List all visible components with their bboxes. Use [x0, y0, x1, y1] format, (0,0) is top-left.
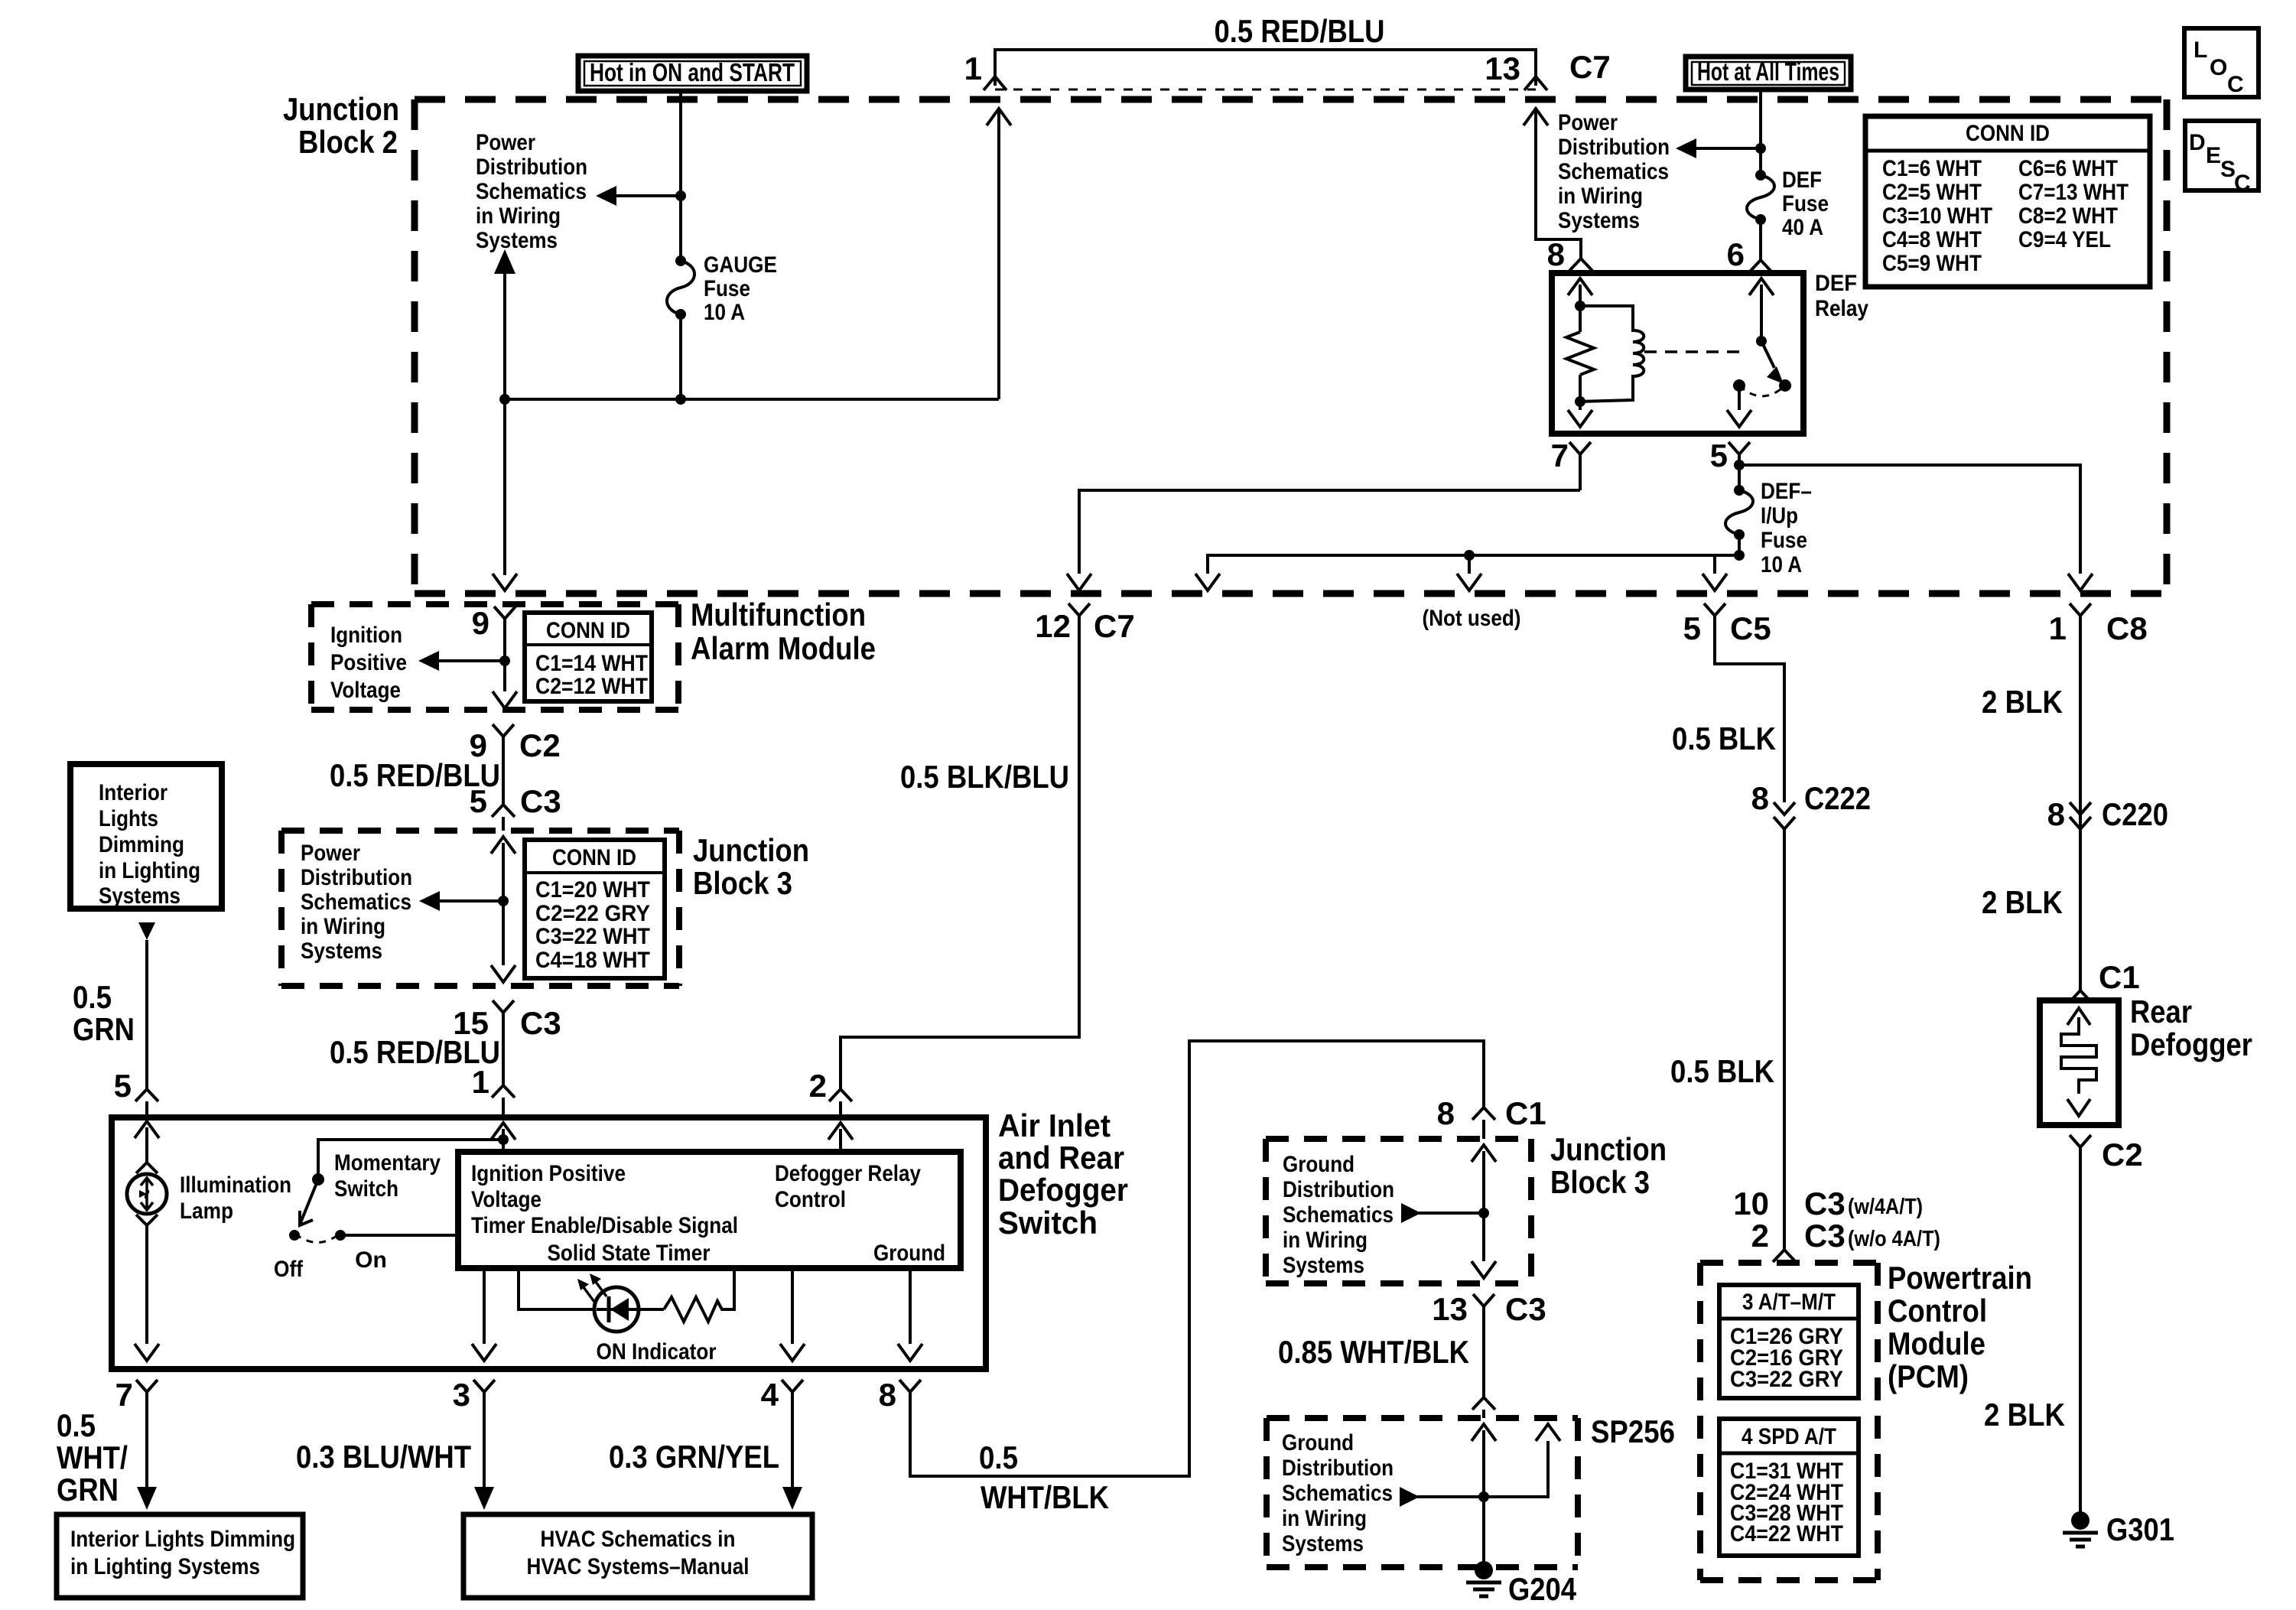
- svg-text:Ground: Ground: [1282, 1430, 1354, 1456]
- svg-text:Switch: Switch: [998, 1205, 1098, 1241]
- svg-text:G204: G204: [1508, 1571, 1577, 1607]
- Hot at All Times box: [1686, 57, 1851, 89]
- MAM ignition positive voltage arrow: [330, 623, 510, 703]
- svg-text:in Wiring: in Wiring: [1558, 184, 1643, 209]
- svg-text:Fuse: Fuse: [1782, 191, 1829, 216]
- svg-text:C1=14 WHT: C1=14 WHT: [535, 651, 648, 676]
- ground G204: [1466, 1516, 1577, 1607]
- wire 1 C8 down right column: [2079, 616, 2082, 990]
- svg-text:CONN ID: CONN ID: [552, 845, 636, 870]
- connector pin 1 C7: [964, 50, 1007, 90]
- timer output pin3 wire: [472, 1268, 496, 1361]
- junction block 2 dashed border: [415, 99, 2167, 594]
- svg-text:12: 12: [1035, 608, 1071, 644]
- svg-text:Systems: Systems: [301, 938, 382, 964]
- ground G301: [2063, 1511, 2174, 1547]
- svg-text:GRN: GRN: [57, 1472, 119, 1508]
- connector C2 rear defogger: [2070, 1135, 2143, 1173]
- connector C1 rear defogger: [2069, 959, 2140, 1003]
- connector 2 switch: [809, 1068, 852, 1117]
- momentary switch: [274, 1150, 441, 1282]
- svg-text:Junction: Junction: [693, 832, 809, 868]
- svg-text:Control: Control: [775, 1187, 846, 1212]
- svg-text:(Not used): (Not used): [1423, 606, 1521, 631]
- net 0.5 BLK label lower: [1670, 1053, 1774, 1089]
- relay resistor: [1566, 332, 1594, 375]
- svg-text:Voltage: Voltage: [471, 1187, 541, 1212]
- pin1 junction dot: [498, 1134, 509, 1145]
- Rear Defogger box: [2040, 994, 2252, 1125]
- svg-text:Schematics: Schematics: [1283, 1202, 1394, 1228]
- svg-text:Systems: Systems: [476, 228, 558, 253]
- svg-text:in Lighting Systems: in Lighting Systems: [70, 1554, 260, 1579]
- timer ground pin8 wire: [898, 1268, 922, 1361]
- relay switch contacts: [1733, 379, 1791, 396]
- svg-text:DEF: DEF: [1815, 271, 1857, 296]
- svg-text:in Wiring: in Wiring: [301, 914, 385, 939]
- connector relay pin 7: [1551, 437, 1591, 490]
- svg-text:C8: C8: [2106, 610, 2148, 646]
- wire from Hot in ON box down: [679, 91, 682, 261]
- svg-text:5: 5: [1683, 610, 1701, 646]
- svg-text:Rear: Rear: [2130, 994, 2192, 1029]
- svg-text:Ground: Ground: [873, 1241, 945, 1266]
- (Not used) branch: [1423, 550, 1521, 631]
- svg-text:8: 8: [1437, 1095, 1455, 1131]
- svg-text:C7=13 WHT: C7=13 WHT: [2018, 180, 2129, 205]
- bus wire inside JB2: [499, 394, 999, 405]
- svg-text:0.5: 0.5: [979, 1439, 1018, 1475]
- junction dot pin5 branch: [1734, 460, 1745, 470]
- connector 4 switch: [761, 1377, 803, 1510]
- svg-text:D: D: [2189, 130, 2206, 155]
- junction dot: [1755, 143, 1766, 154]
- svg-text:8: 8: [1751, 780, 1769, 816]
- connector 1 switch: [472, 1064, 515, 1117]
- MAM CONN ID table: [525, 613, 652, 701]
- svg-text:C3=10 WHT: C3=10 WHT: [1882, 203, 1992, 229]
- Junction Block 3 dashed box (upper): [281, 831, 809, 986]
- svg-text:40 A: 40 A: [1782, 215, 1823, 240]
- relay coil: [1580, 306, 1644, 402]
- svg-text:5: 5: [470, 783, 487, 819]
- distribution wire below fuse: [1195, 550, 1745, 590]
- svg-text:10: 10: [1733, 1186, 1769, 1221]
- svg-text:C7: C7: [1569, 49, 1611, 85]
- relay coil bottom junction: [1575, 396, 1585, 407]
- Hot in ON and START box: [578, 56, 807, 91]
- svg-text:Distribution: Distribution: [1282, 1456, 1394, 1481]
- svg-text:C4=22 WHT: C4=22 WHT: [1730, 1521, 1843, 1547]
- wire On contact to timer: [340, 1234, 458, 1237]
- arrow to Power Distribution Schematics (right): [1676, 138, 1761, 158]
- SP256 branch up arrow: [1484, 1424, 1560, 1497]
- svg-text:Ground: Ground: [1283, 1152, 1355, 1177]
- svg-text:Alarm Module: Alarm Module: [691, 630, 876, 666]
- connector relay pin 5: [1710, 437, 1750, 490]
- Interior Lights Dimming in Lighting Systems box (bottom): [57, 1514, 303, 1598]
- svg-text:5: 5: [1710, 437, 1728, 473]
- svg-text:C4=18 WHT: C4=18 WHT: [535, 948, 650, 973]
- svg-text:Schematics: Schematics: [1282, 1481, 1393, 1506]
- MAM output arrow down: [493, 691, 517, 708]
- wire C2 to ground: [2079, 1147, 2082, 1512]
- svg-text:DEF: DEF: [1782, 168, 1822, 193]
- svg-text:Schematics: Schematics: [301, 890, 411, 915]
- net 0.5 RED/BLU label lower: [330, 1034, 500, 1070]
- SP256 entry arrow: [1472, 1424, 1496, 1516]
- svg-text:WHT/: WHT/: [57, 1439, 128, 1475]
- svg-text:0.5 RED/BLU: 0.5 RED/BLU: [1215, 13, 1385, 49]
- svg-text:C3: C3: [1804, 1218, 1846, 1254]
- relay coil input arrow pin 8: [1568, 278, 1592, 332]
- connector 12 C7: [1035, 603, 1134, 644]
- svg-text:Distribution: Distribution: [1558, 135, 1670, 160]
- svg-text:Off: Off: [274, 1257, 304, 1282]
- svg-text:and Rear: and Rear: [998, 1140, 1124, 1176]
- svg-text:10 A: 10 A: [1761, 552, 1802, 577]
- switch pin5 entry arrow: [135, 1121, 159, 1163]
- wire pin1 to momentary switch: [318, 1140, 503, 1179]
- svg-text:C5=9 WHT: C5=9 WHT: [1882, 251, 1982, 276]
- svg-text:Interior: Interior: [99, 780, 167, 805]
- svg-text:C2=12 WHT: C2=12 WHT: [535, 674, 648, 699]
- svg-text:C3: C3: [1804, 1186, 1846, 1221]
- svg-text:8: 8: [1547, 236, 1565, 272]
- wire fuse to relay pin 6: [1727, 220, 1772, 272]
- svg-text:4 SPD A/T: 4 SPD A/T: [1742, 1424, 1836, 1449]
- svg-text:Systems: Systems: [99, 883, 180, 909]
- relay coil/resistor top junction: [1575, 301, 1585, 311]
- svg-text:0.5: 0.5: [73, 979, 112, 1015]
- svg-text:7: 7: [115, 1377, 133, 1413]
- PCM 3 A/T-M/T table: [1719, 1285, 1859, 1398]
- svg-text:0.85 WHT/BLK: 0.85 WHT/BLK: [1278, 1334, 1469, 1370]
- svg-text:C2: C2: [519, 727, 561, 763]
- relay switch blade: [1761, 341, 1784, 384]
- relay pin 7 output arrow: [1568, 375, 1592, 427]
- DEF Relay box: [1552, 271, 1868, 434]
- svg-text:(w/o 4A/T): (w/o 4A/T): [1848, 1227, 1940, 1251]
- svg-text:Block 3: Block 3: [693, 865, 792, 901]
- net 0.5 BLK/BLU label: [900, 759, 1069, 795]
- svg-text:Block 2: Block 2: [298, 124, 398, 160]
- svg-text:Module: Module: [1888, 1325, 1985, 1361]
- timer output pin4 wire: [780, 1268, 805, 1361]
- DEF fuse 40A: [1747, 168, 1829, 240]
- svg-text:O: O: [2210, 55, 2227, 80]
- svg-text:Dimming: Dimming: [99, 832, 184, 857]
- svg-text:C3=22 WHT: C3=22 WHT: [535, 924, 650, 949]
- svg-text:C3: C3: [520, 1005, 561, 1041]
- svg-text:in Lighting: in Lighting: [99, 858, 200, 883]
- svg-text:L: L: [2194, 37, 2207, 63]
- svg-text:in Wiring: in Wiring: [1282, 1506, 1367, 1531]
- svg-text:C6=6 WHT: C6=6 WHT: [2018, 156, 2118, 181]
- svg-text:1: 1: [472, 1064, 489, 1100]
- svg-text:G301: G301: [2106, 1511, 2174, 1547]
- svg-text:C220: C220: [2102, 796, 2168, 832]
- svg-text:Power: Power: [1558, 110, 1618, 135]
- svg-text:C222: C222: [1804, 780, 1871, 816]
- svg-text:Control: Control: [1888, 1293, 1987, 1329]
- connector 5 C3: [470, 783, 561, 831]
- net 0.5 RED/BLU label upper: [330, 757, 500, 793]
- svg-text:S: S: [2220, 157, 2236, 182]
- svg-text:Power: Power: [476, 130, 535, 155]
- svg-text:8: 8: [879, 1377, 896, 1413]
- junction dot: [675, 190, 686, 201]
- svg-text:Switch: Switch: [334, 1176, 398, 1202]
- wire up to pin 1 C7: [987, 109, 1011, 399]
- SP256 dashed box: [1267, 1413, 1675, 1567]
- svg-text:3: 3: [453, 1377, 470, 1413]
- svg-text:DEF–: DEF–: [1761, 479, 1812, 504]
- svg-text:2: 2: [1751, 1218, 1769, 1254]
- svg-text:8: 8: [2047, 796, 2065, 832]
- svg-text:HVAC Schematics in: HVAC Schematics in: [541, 1527, 736, 1552]
- Junction Block 3 dashed box (lower): [1266, 1131, 1667, 1283]
- Powertrain Control Module dashed box: [1700, 1260, 2032, 1580]
- wire 5 C5 down to C222: [1715, 616, 1784, 802]
- svg-text:Distribution: Distribution: [301, 865, 412, 890]
- ON Indicator label: [597, 1339, 717, 1364]
- wire into MAM pin 9: [472, 605, 515, 691]
- svg-text:13: 13: [1432, 1291, 1468, 1327]
- connector 8 C1: [1437, 1095, 1546, 1139]
- net 0.3 BLU/WHT label: [296, 1439, 471, 1475]
- svg-text:Positive: Positive: [330, 650, 407, 675]
- connector 5 switch: [114, 1068, 158, 1117]
- svg-text:9: 9: [472, 605, 489, 641]
- svg-text:Schematics: Schematics: [1558, 159, 1669, 184]
- svg-text:4: 4: [761, 1377, 779, 1413]
- arrow to Power Distribution Schematics (left): [596, 186, 681, 206]
- wire 0.5 GRN to switch pin 5: [73, 922, 155, 1089]
- svg-text:C1=20 WHT: C1=20 WHT: [535, 877, 650, 903]
- svg-text:Distribution: Distribution: [1283, 1177, 1394, 1202]
- connector 8 switch: [879, 1377, 921, 1413]
- svg-text:0.5 BLK: 0.5 BLK: [1672, 720, 1776, 756]
- svg-text:Distribution: Distribution: [476, 154, 587, 180]
- svg-text:C5: C5: [1730, 610, 1771, 646]
- connector 5 C5: [1683, 603, 1771, 646]
- svg-text:Illumination: Illumination: [180, 1173, 291, 1198]
- DEF-I/Up fuse 10A: [1725, 465, 1812, 577]
- svg-text:Defogger: Defogger: [998, 1172, 1128, 1208]
- net 0.5 RED/BLU top label: [1215, 13, 1385, 49]
- svg-text:GRN: GRN: [73, 1011, 135, 1047]
- rear defogger element: [2061, 1008, 2096, 1116]
- relay switch common from pin 6: [1749, 278, 1774, 346]
- wire pin8 to 8 C1: [910, 1041, 1484, 1476]
- Power Distribution Schematics in Wiring Systems text (JB2 right): [1558, 110, 1670, 233]
- svg-text:Air Inlet: Air Inlet: [998, 1107, 1111, 1143]
- svg-text:Solid State Timer: Solid State Timer: [548, 1241, 711, 1266]
- svg-text:(PCM): (PCM): [1888, 1358, 1969, 1394]
- GAUGE fuse 10A: [667, 252, 777, 325]
- svg-text:On: On: [355, 1247, 387, 1273]
- svg-text:Systems: Systems: [1282, 1531, 1364, 1556]
- HVAC Schematics box: [463, 1514, 812, 1598]
- wire fuse to bus: [679, 314, 682, 399]
- net 0.85 WHT/BLK label: [1278, 1334, 1469, 1370]
- svg-text:SP256: SP256: [1591, 1413, 1675, 1449]
- illumination lamp: [127, 1163, 291, 1225]
- svg-text:Lamp: Lamp: [180, 1199, 233, 1224]
- wire pin13 C7 down to relay pin 8: [1524, 109, 1592, 272]
- svg-text:(w/4A/T): (w/4A/T): [1848, 1195, 1923, 1219]
- JB3 CONN ID table: [525, 840, 665, 978]
- svg-text:0.5: 0.5: [57, 1407, 96, 1443]
- connector pin 13 C7: [1485, 49, 1610, 90]
- net 0.5 WHT/BLK label: [979, 1439, 1109, 1515]
- net 0.5 WHT/GRN label: [57, 1407, 128, 1508]
- JB3 lower entry arrow: [1472, 1145, 1496, 1261]
- svg-text:C9=4 YEL: C9=4 YEL: [2018, 227, 2111, 252]
- svg-text:Timer Enable/Disable Signal: Timer Enable/Disable Signal: [471, 1213, 738, 1238]
- connector 8 C220: [2047, 796, 2168, 832]
- svg-text:Junction: Junction: [283, 91, 399, 127]
- svg-text:Systems: Systems: [1558, 208, 1640, 233]
- net 2 BLK label top: [1982, 684, 2063, 720]
- svg-text:Junction: Junction: [1550, 1131, 1667, 1167]
- svg-text:2: 2: [809, 1068, 827, 1104]
- JB3 exit arrow: [491, 965, 515, 982]
- svg-text:0.3 BLU/WHT: 0.3 BLU/WHT: [296, 1439, 471, 1475]
- JB3 lower exit arrow: [1472, 1261, 1496, 1278]
- switch pin1 entry arrow: [491, 1123, 515, 1152]
- svg-text:2 BLK: 2 BLK: [1982, 884, 2063, 920]
- svg-text:C1: C1: [1505, 1095, 1546, 1131]
- svg-text:Defogger Relay: Defogger Relay: [775, 1161, 921, 1186]
- wire C222 down to PCM: [1783, 829, 1786, 1250]
- svg-text:2 BLK: 2 BLK: [1982, 684, 2063, 720]
- svg-text:Ignition Positive: Ignition Positive: [471, 1161, 626, 1186]
- wire 12 C7 down to switch pin 2: [841, 616, 1079, 1089]
- LED emission arrows: [577, 1273, 607, 1302]
- svg-text:Powertrain: Powertrain: [1888, 1260, 2032, 1296]
- connector 7 switch: [115, 1377, 158, 1510]
- wire Hot at All Times down: [1759, 89, 1762, 175]
- connector 15 C3: [453, 1000, 561, 1085]
- svg-text:1: 1: [2049, 610, 2067, 646]
- svg-text:C2=22 GRY: C2=22 GRY: [535, 901, 650, 926]
- connector 10 C3 / 2 C3 PCM: [1733, 1186, 1940, 1262]
- svg-text:CONN ID: CONN ID: [546, 618, 630, 643]
- Air Inlet and Rear Defogger Switch box: [112, 1107, 1128, 1369]
- svg-text:Fuse: Fuse: [1761, 528, 1807, 553]
- svg-text:Fuse: Fuse: [704, 276, 750, 301]
- JB3 entry arrow: [491, 837, 515, 965]
- svg-text:C4=8 WHT: C4=8 WHT: [1882, 227, 1982, 252]
- net 2 BLK label mid: [1982, 884, 2063, 920]
- svg-text:C2=5 WHT: C2=5 WHT: [1882, 180, 1982, 205]
- wire relay pin5 to 1 C8: [1739, 465, 2093, 590]
- svg-text:ON Indicator: ON Indicator: [597, 1339, 717, 1364]
- svg-text:Momentary: Momentary: [334, 1150, 441, 1176]
- DESC reference box: [2185, 121, 2259, 196]
- svg-text:C8=2 WHT: C8=2 WHT: [2018, 203, 2118, 229]
- svg-text:C: C: [2227, 72, 2244, 97]
- svg-text:GAUGE: GAUGE: [704, 252, 777, 278]
- wire relay pin7 to 12 C7: [1067, 490, 1580, 590]
- svg-text:0.5 BLK/BLU: 0.5 BLK/BLU: [900, 759, 1069, 795]
- PCM 4 SPD A/T table: [1719, 1419, 1859, 1556]
- ON indicator LED circuit: [519, 1268, 734, 1332]
- JB3 power distribution arrow: [301, 841, 509, 964]
- svg-text:C1: C1: [2099, 959, 2140, 995]
- branch to 5 C5: [1702, 555, 1727, 590]
- svg-text:0.3 GRN/YEL: 0.3 GRN/YEL: [609, 1439, 779, 1475]
- svg-text:Schematics: Schematics: [476, 179, 587, 204]
- svg-text:Defogger: Defogger: [2130, 1026, 2252, 1062]
- svg-text:6: 6: [1727, 236, 1745, 272]
- svg-text:13: 13: [1485, 50, 1520, 86]
- svg-text:Relay: Relay: [1815, 296, 1868, 321]
- svg-text:C3: C3: [520, 783, 561, 819]
- net 0.3 GRN/YEL label: [609, 1439, 779, 1475]
- svg-text:C1=6 WHT: C1=6 WHT: [1882, 156, 1982, 181]
- LOC reference box: [2184, 28, 2259, 97]
- svg-text:10 A: 10 A: [704, 300, 745, 325]
- connector SP256 entry: [1472, 1397, 1495, 1418]
- svg-text:C7: C7: [1094, 608, 1135, 644]
- svg-text:Block 3: Block 3: [1550, 1164, 1650, 1200]
- svg-text:C3=22 GRY: C3=22 GRY: [1730, 1367, 1843, 1392]
- wire down to Multifunction Alarm Module: [493, 399, 517, 590]
- svg-text:WHT/BLK: WHT/BLK: [981, 1479, 1109, 1515]
- svg-text:Ignition: Ignition: [330, 623, 402, 648]
- svg-text:3 A/T–M/T: 3 A/T–M/T: [1742, 1290, 1836, 1315]
- svg-text:in Wiring: in Wiring: [476, 203, 561, 229]
- svg-text:5: 5: [114, 1068, 132, 1104]
- svg-text:Multifunction: Multifunction: [691, 597, 866, 633]
- JB3 lower ground distribution arrow: [1283, 1152, 1489, 1278]
- svg-text:Systems: Systems: [1283, 1253, 1364, 1278]
- lamp wire to pin 7: [135, 1225, 159, 1361]
- svg-text:Lights: Lights: [99, 806, 158, 831]
- Solid State Timer box: [458, 1152, 961, 1268]
- svg-text:0.5 BLK: 0.5 BLK: [1670, 1053, 1774, 1089]
- svg-text:1: 1: [964, 50, 982, 86]
- svg-text:Interior Lights Dimming: Interior Lights Dimming: [70, 1527, 295, 1552]
- svg-text:Power: Power: [301, 841, 360, 866]
- SP256 ground distribution arrow: [1282, 1430, 1489, 1556]
- Multifunction Alarm Module dashed box: [311, 597, 876, 710]
- Interior Lights Dimming in Lighting Systems box (upper left): [70, 764, 222, 909]
- svg-text:7: 7: [1551, 437, 1569, 473]
- svg-text:C2: C2: [2102, 1137, 2143, 1173]
- Power Distribution Schematics in Wiring Systems text (JB2 left): [476, 130, 587, 253]
- connector 9 C2: [470, 724, 561, 805]
- svg-text:E: E: [2206, 143, 2221, 168]
- connector 1 C8: [2049, 603, 2148, 646]
- svg-text:I/Up: I/Up: [1761, 503, 1798, 529]
- CONN ID table (Junction Block 2): [1865, 116, 2150, 287]
- relay switch output to pin 5: [1727, 385, 1751, 427]
- wire up-arrow branch to Power Distribution: [494, 249, 515, 399]
- net 0.5 BLK label upper: [1672, 720, 1776, 756]
- svg-text:Voltage: Voltage: [330, 678, 401, 703]
- svg-text:C3: C3: [1505, 1291, 1546, 1327]
- Junction Block 2 label: [283, 91, 399, 160]
- svg-text:Hot at All Times: Hot at All Times: [1697, 57, 1839, 86]
- relay actuation dashed link: [1644, 350, 1748, 353]
- net 2 BLK label bottom: [1984, 1397, 2065, 1433]
- connector 3 switch: [453, 1377, 495, 1510]
- connector 8 C222: [1751, 780, 1871, 829]
